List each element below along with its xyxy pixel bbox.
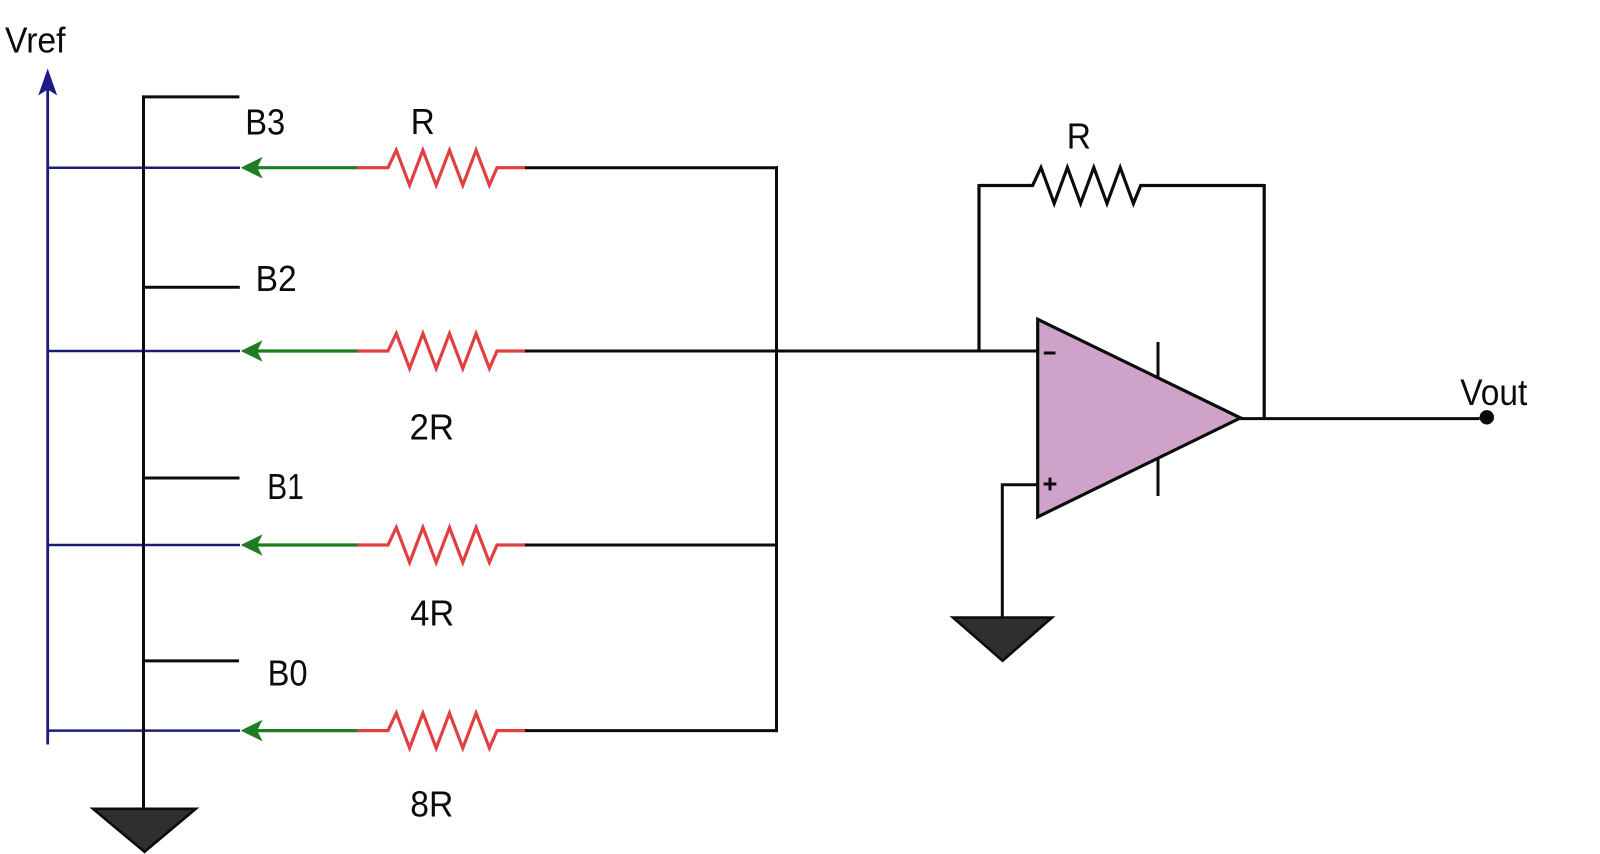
svg-text:Vout: Vout bbox=[1460, 371, 1528, 413]
svg-text:4R: 4R bbox=[410, 593, 454, 634]
svg-text:2R: 2R bbox=[410, 407, 455, 448]
svg-text:8R: 8R bbox=[410, 783, 453, 824]
svg-text:B2: B2 bbox=[256, 258, 297, 299]
svg-text:R: R bbox=[1067, 116, 1091, 157]
svg-text:B0: B0 bbox=[268, 653, 308, 694]
svg-text:B3: B3 bbox=[245, 101, 285, 142]
svg-text:B1: B1 bbox=[267, 466, 304, 507]
svg-text:R: R bbox=[411, 101, 435, 142]
svg-text:Vref: Vref bbox=[5, 19, 66, 60]
